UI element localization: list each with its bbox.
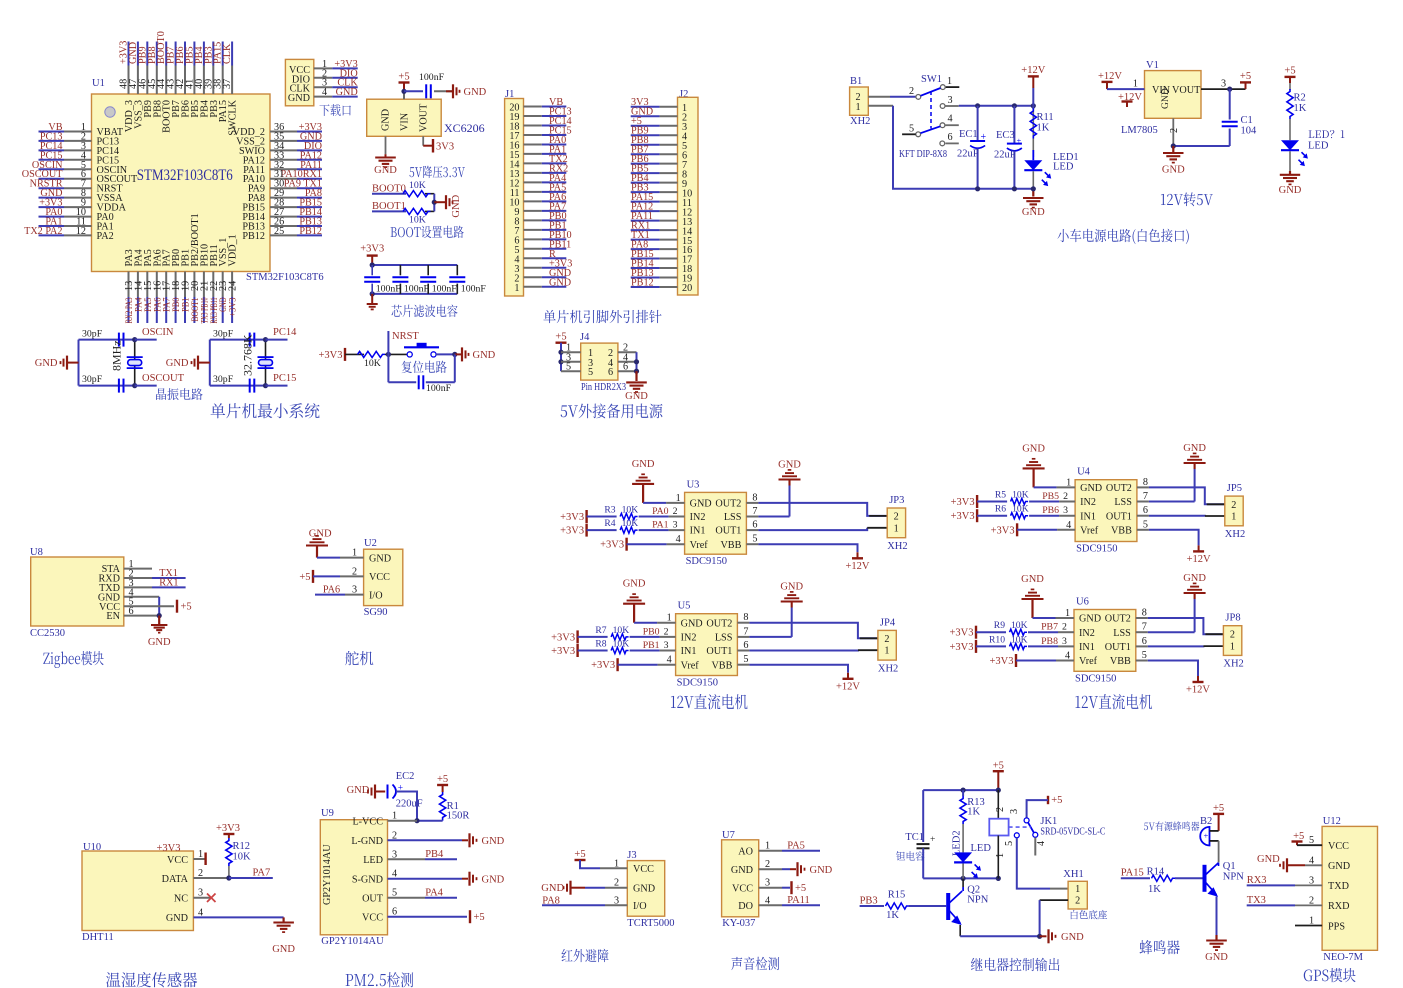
J1 pin 6 wire (PB10) bbox=[524, 238, 542, 240]
U7 pin2 wire GND bbox=[759, 868, 782, 870]
wire Q2 collector bbox=[962, 887, 964, 891]
svg-text:OSCOUT: OSCOUT bbox=[142, 373, 185, 384]
ground (U9 S-GND) bbox=[468, 872, 470, 886]
svg-text:VCC: VCC bbox=[1328, 841, 1349, 852]
svg-text:8: 8 bbox=[1142, 608, 1147, 619]
U12 pin1 wire PPS bbox=[1295, 925, 1322, 927]
svg-text:R12: R12 bbox=[233, 841, 251, 852]
resistor R9 10K bbox=[976, 631, 1006, 633]
svg-text:R2: R2 bbox=[1294, 93, 1306, 104]
svg-text:IN2: IN2 bbox=[1080, 497, 1096, 508]
U1 pin 46 wire (PB9) bbox=[146, 42, 148, 66]
ground (J4) bbox=[626, 381, 647, 383]
resistor R11 1K bbox=[1032, 106, 1034, 109]
U1 pin 20 wire (BOOT1) bbox=[193, 272, 195, 298]
label BOOT设置电路 bbox=[391, 226, 464, 238]
svg-text:100nF: 100nF bbox=[404, 284, 430, 295]
U1 pin 45 wire (PB8) bbox=[156, 42, 158, 66]
svg-text:PB12: PB12 bbox=[299, 226, 322, 237]
resistor 10K (BOOT1) bbox=[403, 208, 431, 214]
power +5 (XC6206) bbox=[399, 81, 410, 83]
svg-text:VBB: VBB bbox=[1110, 656, 1131, 667]
wire U4 pin5 VBB to +12V bbox=[1137, 529, 1149, 531]
svg-text:24: 24 bbox=[228, 281, 239, 291]
svg-text:8: 8 bbox=[1143, 477, 1148, 488]
svg-text:22uF: 22uF bbox=[994, 150, 1016, 161]
svg-text:NRST: NRST bbox=[392, 331, 419, 342]
wire button to gnd bbox=[436, 353, 455, 355]
svg-text:GND: GND bbox=[1183, 443, 1206, 454]
J1 pin 9 wire (PA7) bbox=[524, 210, 542, 212]
wire U6 pin4 Vref bbox=[1016, 660, 1056, 662]
svg-text:GND: GND bbox=[1279, 185, 1302, 196]
svg-text:LED: LED bbox=[363, 855, 383, 866]
svg-text:PB1: PB1 bbox=[643, 640, 660, 651]
svg-text:IN2: IN2 bbox=[681, 633, 697, 644]
svg-text:+3V3: +3V3 bbox=[560, 526, 584, 537]
wire R1 to pin1 node bbox=[417, 820, 443, 822]
svg-text:1: 1 bbox=[676, 493, 681, 504]
U1 pin 8 wire (GND) bbox=[39, 197, 65, 199]
svg-text:30pF: 30pF bbox=[213, 329, 234, 340]
svg-text:Vref: Vref bbox=[1079, 656, 1098, 667]
power +12V (U4) bbox=[1193, 550, 1204, 552]
svg-text:5: 5 bbox=[1142, 650, 1147, 661]
svg-text:GND: GND bbox=[1022, 207, 1045, 218]
svg-text:OUT1: OUT1 bbox=[1105, 642, 1131, 653]
U1 pin 16 wire (PA6) bbox=[156, 272, 158, 298]
U1 pin 37 wire (CLK) bbox=[231, 42, 233, 66]
U1 pin 22 wire (RX3 PB11) bbox=[212, 272, 214, 298]
U9 pin5 wire OUT PA4 bbox=[388, 897, 426, 899]
svg-text:5: 5 bbox=[752, 534, 757, 545]
wire relay top rail bbox=[923, 789, 998, 791]
ground (XC6206) bbox=[375, 156, 396, 158]
P1 pin 2 wire (DIO) bbox=[314, 77, 332, 79]
wire U4 pin3 (PB6) bbox=[1029, 515, 1059, 517]
ground (U10) bbox=[273, 921, 294, 923]
svg-text:Pin HDR2X3: Pin HDR2X3 bbox=[581, 382, 626, 393]
svg-text:LED: LED bbox=[1053, 162, 1074, 173]
svg-text:GND: GND bbox=[1257, 854, 1280, 865]
EC2 plates bbox=[387, 785, 389, 799]
label 舵机 bbox=[345, 651, 373, 665]
U1 pin 21 wire (TX3 PB10) bbox=[203, 272, 205, 298]
svg-text:NC: NC bbox=[174, 894, 188, 905]
ground (BOOT) bbox=[445, 195, 447, 209]
svg-text:KY-037: KY-037 bbox=[722, 918, 755, 929]
J1 pin 19 wire (PC13) bbox=[524, 115, 542, 117]
svg-text:SG90: SG90 bbox=[364, 607, 388, 618]
MCU U1 STM32F103C8T6 body bbox=[92, 94, 271, 272]
capacitor C4 100nF bbox=[427, 265, 429, 275]
J2 pin 3 wire (+5) bbox=[631, 125, 660, 127]
svg-text:J4: J4 bbox=[580, 332, 590, 343]
J1 pin 15 wire (PA1) bbox=[524, 153, 542, 155]
wire BOOT0 bbox=[372, 193, 406, 195]
svg-text:GND: GND bbox=[482, 874, 505, 885]
wire GND pin down bbox=[385, 136, 387, 154]
resistor R4 10K bbox=[587, 529, 617, 531]
ground (car power) bbox=[1023, 197, 1044, 199]
ground (crystal 1) bbox=[66, 356, 68, 370]
svg-text:150R: 150R bbox=[447, 811, 470, 822]
svg-text:GND: GND bbox=[374, 165, 397, 176]
svg-text:JP5: JP5 bbox=[1227, 483, 1242, 494]
svg-text:VBB: VBB bbox=[1111, 525, 1132, 536]
svg-text:100nF: 100nF bbox=[419, 72, 445, 83]
resistor R5 10K bbox=[977, 501, 1007, 503]
U1 pin 26 wire (PB13) bbox=[270, 225, 297, 227]
power +3V3 (U4 pin3) bbox=[976, 509, 978, 522]
ground (filter caps) bbox=[367, 303, 378, 305]
U1 pin 10 wire (PA0) bbox=[39, 216, 65, 218]
svg-text:10K: 10K bbox=[1012, 504, 1029, 515]
svg-text:STM32F103C8T6: STM32F103C8T6 bbox=[137, 167, 233, 184]
svg-text:GND: GND bbox=[1021, 574, 1044, 585]
wire U3 pin8 OUT2 to JP3 bbox=[746, 502, 758, 504]
U9 pin1 wire bbox=[388, 820, 418, 822]
svg-text:L-VCC: L-VCC bbox=[352, 817, 383, 828]
J1 pin 13 wire (RX2) bbox=[524, 172, 542, 174]
svg-text:U9: U9 bbox=[321, 808, 334, 819]
J1 pin 3 wire (+3V3) bbox=[524, 267, 542, 269]
svg-text:Vref: Vref bbox=[681, 660, 700, 671]
U1 pin 47 wire (GND) bbox=[137, 42, 139, 66]
label 复位电路 bbox=[402, 361, 447, 373]
svg-text:+3V3: +3V3 bbox=[989, 656, 1013, 667]
wire rail to gnd (car power) bbox=[1032, 189, 1034, 197]
wire top rail (+12V) bbox=[959, 105, 1034, 107]
U9 pin4 wire S-GND bbox=[388, 878, 463, 880]
svg-text:5: 5 bbox=[1143, 519, 1148, 530]
svg-text:10K: 10K bbox=[622, 505, 639, 516]
wire filter top rail bbox=[372, 264, 457, 266]
svg-text:+3V3: +3V3 bbox=[228, 297, 239, 316]
svg-text:100nF: 100nF bbox=[432, 284, 458, 295]
svg-text:RX1: RX1 bbox=[159, 578, 178, 589]
svg-text:PA7: PA7 bbox=[253, 868, 271, 879]
svg-text:LSS: LSS bbox=[1113, 628, 1131, 639]
node NRST wire up bbox=[387, 331, 389, 354]
wire EC2 to node bbox=[396, 792, 417, 821]
power 3V3 port bbox=[432, 139, 434, 153]
svg-text:U1: U1 bbox=[92, 78, 105, 89]
svg-text:CC2530: CC2530 bbox=[30, 628, 65, 639]
resistor 10K (BOOT0) bbox=[403, 191, 431, 197]
svg-text:2: 2 bbox=[894, 511, 899, 522]
J2 pin 4 wire (PB9) bbox=[631, 134, 660, 136]
wire U5 pin1 bbox=[634, 622, 657, 624]
resistor R10 10K bbox=[976, 645, 1006, 647]
svg-text:+3V3: +3V3 bbox=[600, 540, 624, 551]
power +3V3 (U4 Vref) bbox=[1016, 523, 1018, 536]
svg-text:PC14: PC14 bbox=[273, 327, 297, 338]
J2 pin 13 wire (PA11) bbox=[631, 220, 660, 222]
J1 pin 2 wire (GND) bbox=[524, 276, 542, 278]
J2 pin 9 wire (PB4) bbox=[631, 182, 660, 184]
svg-text:10K: 10K bbox=[1011, 620, 1028, 631]
svg-text:VOUT: VOUT bbox=[419, 103, 430, 132]
svg-text:5: 5 bbox=[566, 362, 571, 373]
resistor R2 1K bbox=[1287, 89, 1293, 119]
svg-text:PB6: PB6 bbox=[1042, 505, 1059, 516]
wire U5 pin2 (PB0) bbox=[630, 636, 660, 638]
label PM2.5检测 bbox=[346, 972, 414, 987]
svg-text:4: 4 bbox=[676, 534, 681, 545]
svg-text:PB4: PB4 bbox=[425, 849, 444, 860]
svg-text:GP2Y1014AU: GP2Y1014AU bbox=[322, 844, 333, 905]
J2 pin 2 wire (GND) bbox=[631, 115, 660, 117]
wire U5 pin6 OUT1 to JP4 bbox=[737, 650, 749, 652]
svg-text:PA5: PA5 bbox=[787, 840, 805, 851]
wire Q2 emitter to gnd rail bbox=[959, 925, 961, 936]
svg-text:GND: GND bbox=[1328, 861, 1350, 872]
svg-text:3V3: 3V3 bbox=[436, 142, 454, 153]
svg-text:OUT2: OUT2 bbox=[706, 618, 732, 629]
svg-text:GND: GND bbox=[1079, 614, 1101, 625]
U2 pin1 wire bbox=[317, 557, 340, 559]
J2 pin 16 wire (PA8) bbox=[631, 248, 660, 250]
svg-text:R15: R15 bbox=[888, 890, 906, 901]
J2 pin 19 wire (PB13) bbox=[631, 277, 660, 279]
svg-text:R10: R10 bbox=[989, 634, 1005, 645]
svg-text:IN1: IN1 bbox=[690, 526, 706, 537]
svg-text:VCC: VCC bbox=[633, 864, 654, 875]
svg-text:20: 20 bbox=[682, 283, 692, 294]
label 下载口 bbox=[319, 104, 350, 116]
svg-text:TC1: TC1 bbox=[905, 832, 924, 843]
wire BOOT junction bbox=[433, 194, 435, 212]
svg-text:10K: 10K bbox=[613, 625, 630, 636]
wire B1 pin2 to SW1 bbox=[868, 96, 890, 98]
svg-text:GND: GND bbox=[451, 194, 462, 217]
J2 pin 6 wire (PB7) bbox=[631, 153, 660, 155]
svg-text:PA4: PA4 bbox=[425, 887, 443, 898]
crystal circuit Y2 32.768K rail bbox=[209, 340, 211, 386]
U1 pin 4 wire (PC15) bbox=[39, 159, 65, 161]
U1 pin 12 wire (TX2 PA2) bbox=[39, 234, 65, 236]
svg-text:1: 1 bbox=[667, 613, 672, 624]
svg-text:PB5: PB5 bbox=[1042, 491, 1059, 502]
svg-text:XC6206: XC6206 bbox=[444, 121, 485, 135]
svg-text:VCC: VCC bbox=[369, 572, 390, 583]
wire resistor to node NRST bbox=[385, 353, 410, 355]
J1 pin 12 wire (PA4) bbox=[524, 181, 542, 183]
capacitor C1 104 bbox=[1229, 89, 1231, 119]
svg-text:+5: +5 bbox=[555, 332, 566, 343]
svg-text:2: 2 bbox=[909, 86, 914, 97]
svg-text:R11: R11 bbox=[1037, 112, 1054, 123]
relay JK1 coil bbox=[997, 790, 999, 819]
J2 pin 10 wire (PB3) bbox=[631, 191, 660, 193]
svg-text:L-GND: L-GND bbox=[351, 836, 383, 847]
svg-text:XH1: XH1 bbox=[1063, 869, 1083, 880]
U1 pin 28 wire (PB15) bbox=[270, 206, 297, 208]
resistor R3 10K bbox=[587, 516, 617, 518]
svg-text:1K: 1K bbox=[886, 910, 899, 921]
label 声音检测 bbox=[731, 957, 779, 970]
wire U5 pin7 LSS bbox=[737, 636, 749, 638]
J1 pin 5 wire (PB11) bbox=[524, 248, 542, 250]
wire node to capacitor bbox=[404, 90, 423, 92]
capacitor EC1 22uF bbox=[977, 106, 979, 141]
U1 pin 13 wire (RX2 PA3) bbox=[128, 272, 130, 298]
svg-text:SDC9150: SDC9150 bbox=[677, 678, 718, 689]
svg-text:JP3: JP3 bbox=[889, 495, 904, 506]
svg-text:Q1: Q1 bbox=[1223, 861, 1236, 872]
svg-text:2: 2 bbox=[1062, 622, 1067, 633]
svg-text:+5: +5 bbox=[437, 774, 448, 785]
svg-text:SDC9150: SDC9150 bbox=[1075, 673, 1116, 684]
capacitor EC3 22uF bbox=[1013, 106, 1015, 143]
wire relay pin5 to XH1 bbox=[1017, 838, 1050, 889]
U1 pin 31 wire (PA10RX1) bbox=[270, 178, 297, 180]
svg-text:+3V3: +3V3 bbox=[216, 823, 240, 834]
svg-text:6: 6 bbox=[623, 362, 628, 373]
power +3V3 (U6 Vref) bbox=[1015, 654, 1017, 667]
svg-text:XH2: XH2 bbox=[1223, 659, 1243, 670]
svg-text:U4: U4 bbox=[1077, 467, 1091, 478]
wire U6 pin3 (PB8) bbox=[1028, 645, 1058, 647]
wire U3 pin2 (PA0) bbox=[639, 516, 669, 518]
svg-text:SWCLK: SWCLK bbox=[228, 99, 239, 135]
svg-text:LM7805: LM7805 bbox=[1121, 125, 1158, 136]
svg-text:U3: U3 bbox=[687, 479, 700, 490]
svg-text:TX3: TX3 bbox=[1247, 895, 1266, 906]
resistor R8 10K bbox=[578, 650, 608, 652]
U1 pin 7 wire (NRSTR) bbox=[39, 187, 65, 189]
svg-text:LSS: LSS bbox=[715, 633, 733, 644]
svg-text:I/O: I/O bbox=[633, 901, 647, 912]
svg-text:+3V3: +3V3 bbox=[591, 660, 615, 671]
svg-text:+5: +5 bbox=[474, 912, 485, 923]
U1 pin 25 wire (PB12) bbox=[270, 234, 297, 236]
svg-text:RXD: RXD bbox=[1328, 901, 1350, 912]
svg-text:+3V3: +3V3 bbox=[949, 628, 973, 639]
svg-text:LED: LED bbox=[1308, 141, 1329, 152]
svg-text:1: 1 bbox=[947, 76, 952, 87]
svg-text:OSCIN: OSCIN bbox=[142, 327, 174, 338]
svg-text:8MHz: 8MHz bbox=[110, 340, 124, 371]
svg-text:GND: GND bbox=[625, 391, 648, 402]
wire +12V to VIN bbox=[1107, 88, 1145, 90]
J1 pin 1 wire (GND) bbox=[524, 286, 542, 288]
wire J4 right junction bbox=[636, 352, 638, 378]
svg-text:GND: GND bbox=[810, 865, 833, 876]
U1 pin 43 wire (PB7) bbox=[175, 42, 177, 66]
svg-text:GND: GND bbox=[369, 553, 391, 564]
svg-text:PB12: PB12 bbox=[242, 231, 265, 242]
label 红外避障 bbox=[562, 949, 609, 962]
U1 pin 9 wire (+3V3) bbox=[39, 206, 65, 208]
svg-text:4: 4 bbox=[1065, 651, 1070, 662]
label 温湿度传感器 bbox=[106, 972, 197, 987]
U1 pin 27 wire (PB14) bbox=[270, 216, 297, 218]
J2 pin 1 wire (3V3) bbox=[631, 106, 660, 108]
svg-text:GND: GND bbox=[1160, 88, 1171, 109]
svg-text:JK1: JK1 bbox=[1040, 816, 1057, 827]
svg-text:R3: R3 bbox=[604, 505, 615, 516]
U1 pin 48 wire (+3V3) bbox=[128, 42, 130, 66]
U1 pin 40 wire (PB4) bbox=[203, 42, 205, 66]
ground (U8) bbox=[151, 624, 167, 626]
ground (buzzer) bbox=[1206, 939, 1227, 941]
J1 pin 14 wire (TX2) bbox=[524, 162, 542, 164]
wire +5 down J4 bbox=[560, 343, 562, 372]
svg-text:2: 2 bbox=[1075, 896, 1080, 907]
U9 pin3 wire LED PB4 bbox=[388, 858, 426, 860]
svg-text:+3V3: +3V3 bbox=[360, 244, 384, 255]
svg-text:Vref: Vref bbox=[690, 540, 709, 551]
power +5 (7805 out) bbox=[1240, 81, 1251, 83]
svg-text:10K: 10K bbox=[233, 852, 252, 863]
power +12V (7805 input) bbox=[1102, 81, 1113, 83]
wire VOUT pin3 bbox=[1201, 88, 1246, 90]
svg-text:VCC: VCC bbox=[167, 855, 188, 866]
svg-text:GND: GND bbox=[681, 618, 703, 629]
label 5V外接备用电源 bbox=[561, 404, 663, 419]
U1 pin 19 wire (PB1) bbox=[184, 272, 186, 298]
U1 pin 15 wire (PA5) bbox=[146, 272, 148, 298]
svg-text:GND: GND bbox=[288, 93, 310, 104]
wire VOUT down bbox=[422, 136, 424, 145]
power +5 (J3) bbox=[575, 859, 586, 861]
svg-text:8: 8 bbox=[752, 492, 757, 503]
wire BOOT1 bbox=[372, 210, 406, 212]
svg-text:100nF: 100nF bbox=[461, 284, 487, 295]
svg-text:R4: R4 bbox=[604, 518, 615, 529]
svg-text:+5: +5 bbox=[574, 849, 585, 860]
J4 row 1 wires bbox=[561, 351, 581, 353]
svg-text:VIN: VIN bbox=[400, 112, 411, 131]
svg-text:GND: GND bbox=[690, 499, 712, 510]
svg-text:KFT DIP-8X8: KFT DIP-8X8 bbox=[899, 149, 947, 160]
svg-text:+3V3: +3V3 bbox=[318, 350, 342, 361]
J1 pin 11 wire (PA5) bbox=[524, 191, 542, 193]
label 单片机最小系统 bbox=[211, 403, 320, 418]
svg-text:30pF: 30pF bbox=[82, 329, 103, 340]
U1 pin 5 wire (OSCIN) bbox=[39, 168, 65, 170]
svg-text:XH2: XH2 bbox=[887, 541, 907, 552]
power +3V3 (filter caps) bbox=[367, 254, 378, 256]
power +5 (J4) bbox=[556, 342, 567, 344]
svg-text:R6: R6 bbox=[995, 504, 1006, 515]
svg-text:4: 4 bbox=[322, 87, 327, 98]
svg-text:OUT2: OUT2 bbox=[1106, 483, 1132, 494]
svg-text:7: 7 bbox=[743, 626, 748, 637]
svg-text:SDC9150: SDC9150 bbox=[686, 556, 727, 567]
svg-text:GND: GND bbox=[778, 460, 801, 471]
svg-text:LSS: LSS bbox=[724, 512, 742, 523]
svg-text:6: 6 bbox=[1142, 636, 1147, 647]
svg-text:PC15: PC15 bbox=[273, 373, 296, 384]
svg-text:25: 25 bbox=[274, 226, 284, 237]
svg-text:10K: 10K bbox=[1011, 634, 1028, 645]
svg-text:GND: GND bbox=[1080, 483, 1102, 494]
capacitor 100nF (reset) bbox=[418, 375, 420, 389]
svg-text:100nF: 100nF bbox=[376, 284, 402, 295]
wire U4 pin6 OUT1 to JP5 bbox=[1137, 515, 1149, 517]
J2 pin 11 wire (PA15) bbox=[631, 201, 660, 203]
J2 pin 20 wire (PB12) bbox=[631, 286, 660, 288]
J2 pin 15 wire (TX1) bbox=[631, 239, 660, 241]
power +12V (U5) bbox=[843, 678, 854, 680]
svg-text:EC1: EC1 bbox=[959, 129, 978, 140]
U1 pin 33 wire (PA12) bbox=[270, 159, 297, 161]
svg-text:CLK: CLK bbox=[222, 43, 233, 64]
svg-text:GND: GND bbox=[166, 913, 188, 924]
